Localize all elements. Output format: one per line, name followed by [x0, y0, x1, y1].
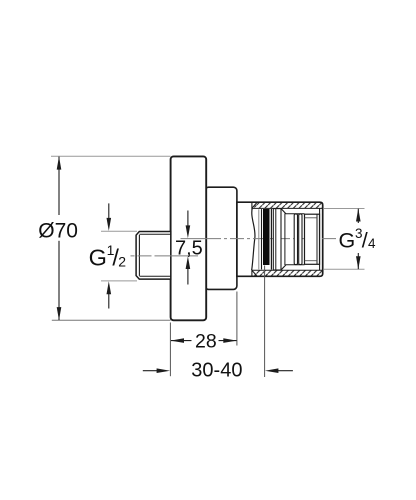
nut shoulder chamfer top	[281, 209, 286, 214]
stub centerline left dashes	[131, 255, 159, 257]
dim Ø70 arrow up	[57, 156, 62, 169]
shoulder face line	[284, 213, 286, 265]
tail end chamfer line bottom	[305, 260, 317, 262]
stub thread root line bottom	[140, 275, 171, 277]
tail end block	[305, 214, 320, 264]
rubber seal (black)	[263, 209, 270, 265]
seal stack line 2	[261, 209, 263, 269]
svg-text:/: /	[362, 229, 368, 253]
nut face inner line	[319, 208, 321, 270]
nut wall hatch band top	[254, 203, 322, 209]
svg-text:4: 4	[368, 236, 376, 251]
dim G1/2 arrow upper	[108, 203, 110, 218]
dim 28 extension line left	[169, 323, 171, 377]
dim 7,5 arrow upper	[187, 211, 189, 227]
stub thread root line top	[140, 233, 171, 235]
dim Ø70 arrow down	[57, 307, 62, 320]
thread ring 1	[294, 214, 297, 265]
dim 30-40 right arrow	[277, 370, 293, 372]
union nut outer shell	[237, 202, 323, 276]
tail end chamfer line top	[305, 217, 317, 219]
bottom notch between sleeve and nut	[252, 270, 257, 276]
svg-text:Ø70: Ø70	[38, 219, 78, 242]
seal stack line 3	[270, 209, 272, 270]
nut wall inner line bottom	[252, 269, 322, 271]
dim Ø70 line upper segment	[58, 157, 60, 215]
main centerline	[207, 238, 336, 240]
svg-text:30-40: 30-40	[191, 360, 242, 382]
svg-text:G: G	[339, 229, 356, 253]
bore line bottom	[286, 264, 305, 266]
stub centerline solid part	[158, 255, 198, 257]
threaded stub G1/2 body	[136, 232, 171, 280]
wavy break line	[252, 209, 255, 271]
dim 28 line right with arrow	[219, 340, 237, 342]
washer inner line	[275, 209, 277, 270]
bore line top	[286, 213, 305, 215]
dim G3/4 line upper segment	[357, 209, 359, 223]
nut shoulder chamfer bottom	[281, 265, 286, 270]
dim Ø70 extension line bottom	[52, 319, 171, 321]
svg-text:2: 2	[118, 253, 126, 269]
dim G3/4 extension line bottom	[324, 268, 365, 270]
washer	[273, 209, 281, 270]
escutcheon plate	[171, 156, 207, 320]
dim G3/4 line lower segment	[357, 253, 359, 269]
tail end block inner line	[316, 214, 318, 264]
stub end face line	[138, 235, 140, 276]
wall flange step cylinder	[205, 187, 237, 289]
dim 30-40 left arrow	[143, 370, 158, 372]
dim G3/4 extension line top	[324, 208, 365, 210]
seal stack thin line 1	[258, 209, 260, 269]
dim Ø70 line lower segment	[58, 241, 60, 320]
nut wall hatch band bottom	[254, 270, 322, 276]
thread ring 2	[299, 214, 302, 265]
dim G1/2 arrow lower	[108, 294, 110, 309]
svg-text:G: G	[89, 245, 107, 271]
dim G1/2 extension line bottom	[101, 280, 137, 282]
top notch between sleeve and nut	[252, 202, 257, 208]
dim 7,5 arrow lower	[187, 269, 189, 285]
dim 28 extension line right	[236, 292, 238, 346]
svg-text:7,5: 7,5	[175, 237, 203, 259]
nut wall inner line top	[252, 207, 322, 209]
dim G3/4 arrow down	[356, 256, 361, 269]
svg-text:28: 28	[195, 330, 217, 352]
main centerline solid left part	[181, 238, 208, 240]
dim Ø70 extension line top	[51, 155, 171, 157]
dim 28 line left with arrow	[171, 340, 192, 342]
dim 30-40 extension line right	[264, 266, 266, 378]
dim G1/2 extension line top	[101, 230, 137, 232]
dim G3/4 arrow up	[356, 209, 361, 222]
